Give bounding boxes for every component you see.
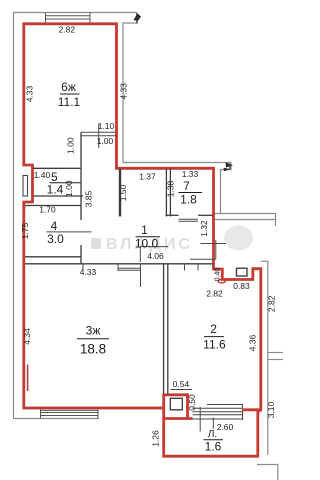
svg-text:1.00: 1.00 — [97, 136, 114, 146]
svg-text:3ж: 3ж — [86, 324, 101, 338]
door threshold room7 — [179, 218, 199, 220]
svg-text:2: 2 — [210, 322, 217, 336]
leader room4 — [47, 231, 92, 233]
watermark small glyph — [91, 238, 101, 249]
svg-text:1.38: 1.38 — [166, 180, 176, 197]
wall room7 bottom — [166, 214, 179, 216]
wall room5 top — [33, 167, 81, 169]
svg-text:3.85: 3.85 — [84, 190, 94, 207]
svg-text:4: 4 — [51, 219, 58, 233]
neighbour step right — [221, 163, 232, 214]
svg-text:0.40: 0.40 — [215, 268, 222, 282]
svg-text:1.50: 1.50 — [118, 184, 128, 201]
svg-text:1.32: 1.32 — [199, 220, 209, 237]
svg-text:1.26: 1.26 — [151, 430, 161, 447]
wall corridor top — [115, 167, 215, 170]
svg-text:1.00: 1.00 — [66, 137, 76, 154]
svg-text:2.60: 2.60 — [217, 422, 234, 432]
dimension arrow top — [136, 13, 138, 24]
wall room5 bottom — [33, 195, 83, 197]
svg-text:4.34: 4.34 — [22, 328, 32, 345]
svg-text:3.0: 3.0 — [47, 232, 64, 246]
svg-text:1.8: 1.8 — [180, 193, 197, 207]
wall window-to-right stub — [242, 408, 261, 411]
door jambs corridor wall ticks — [82, 264, 84, 271]
neighbour stub — [275, 214, 277, 227]
window room3 bottom — [41, 410, 99, 419]
svg-text:11.6: 11.6 — [203, 338, 226, 352]
vent square room2 — [237, 268, 248, 276]
building outline top-right step — [123, 14, 137, 163]
svg-text:4.33: 4.33 — [25, 85, 35, 102]
dim line 1.32 tick — [201, 243, 227, 245]
pillar balcony top — [162, 395, 187, 419]
window room6 top — [46, 13, 91, 23]
dim overline 2.60 — [207, 404, 243, 406]
neighbour line right of corridor — [123, 162, 231, 164]
svg-text:0.50: 0.50 — [187, 394, 197, 411]
svg-text:1.40: 1.40 — [34, 170, 51, 180]
svg-text:2.82: 2.82 — [206, 289, 223, 299]
wall corridor-room3 — [25, 263, 213, 265]
wall closet 1.50 — [119, 169, 121, 217]
svg-text:Л.: Л. — [208, 429, 217, 440]
svg-text:3.10: 3.10 — [266, 401, 276, 418]
wall room6 right — [115, 23, 118, 170]
svg-text:1.00: 1.00 — [64, 180, 74, 197]
svg-text:1.37: 1.37 — [139, 172, 156, 182]
svg-text:1.70: 1.70 — [39, 205, 56, 215]
wall room4 top — [25, 205, 81, 207]
wall room4 bottom — [25, 256, 81, 258]
svg-text:7: 7 — [183, 179, 190, 193]
pilaster room3 left — [27, 365, 29, 392]
wall rooms3-2 double — [163, 264, 165, 394]
dim line 4.06 segment — [140, 246, 168, 248]
balcony window band — [193, 405, 244, 432]
wall room7 left double — [165, 169, 167, 217]
building edge right — [261, 261, 268, 455]
door room2 jamb — [215, 240, 217, 259]
balcony door jamb — [199, 407, 201, 432]
wall left outer with jog — [24, 23, 165, 409]
wall niche vertical — [80, 132, 82, 220]
svg-text:11.1: 11.1 — [58, 95, 81, 109]
svg-text:4.36: 4.36 — [248, 334, 258, 351]
building outline bottom — [14, 418, 100, 420]
wall balcony left — [162, 394, 165, 458]
svg-text:4.33: 4.33 — [80, 267, 97, 277]
bottom-right corner L — [257, 465, 278, 480]
svg-text:1.6: 1.6 — [205, 440, 222, 454]
dim underline 0.54 — [171, 389, 193, 391]
door threshold room3 — [118, 267, 141, 269]
svg-text:10.0: 10.0 — [135, 237, 159, 251]
svg-text:1.10: 1.10 — [98, 121, 115, 131]
vent shaft left wall — [23, 176, 28, 197]
wall balcony bottom — [162, 455, 259, 458]
neighbour wall band right — [215, 213, 276, 215]
svg-text:2.82: 2.82 — [59, 25, 76, 35]
svg-text:1: 1 — [141, 223, 148, 237]
leader balcony label — [212, 418, 214, 429]
svg-text:4.33: 4.33 — [118, 83, 128, 100]
svg-text:2.82: 2.82 — [266, 295, 276, 312]
wall apartment right — [214, 167, 261, 456]
wall room6 top — [23, 22, 118, 25]
vent square balcony pillar — [170, 398, 182, 410]
svg-text:1.4: 1.4 — [47, 183, 64, 197]
svg-text:0.54: 0.54 — [173, 379, 190, 389]
svg-text:0.83: 0.83 — [233, 281, 250, 291]
svg-text:4.06: 4.06 — [147, 251, 164, 261]
wall under balcony door — [162, 417, 192, 420]
dim lines room6 doorway — [81, 131, 116, 133]
entry threshold oval — [218, 280, 225, 283]
building outline left — [14, 13, 138, 419]
svg-text:1.75: 1.75 — [20, 222, 30, 239]
dimension arrow right — [226, 162, 234, 167]
svg-text:18.8: 18.8 — [80, 342, 106, 357]
right band — [268, 352, 283, 354]
watermark logo circle — [224, 226, 253, 251]
svg-text:1.33: 1.33 — [182, 169, 199, 179]
svg-text:6ж: 6ж — [61, 80, 76, 94]
